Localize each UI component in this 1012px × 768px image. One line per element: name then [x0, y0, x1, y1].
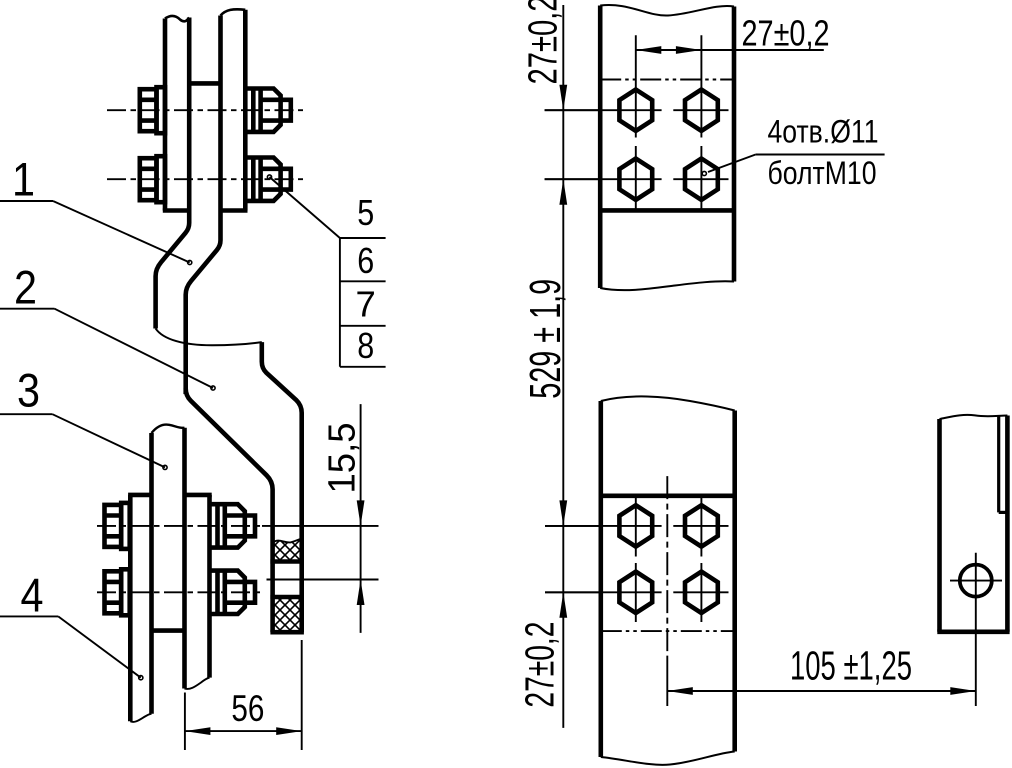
hex bolt head upper-right [685, 90, 718, 131]
dimension 105 ±1,25 [667, 643, 976, 695]
dimension text 529 ± 1,9 (rotated) [521, 279, 570, 399]
callout 1 leader [0, 152, 192, 264]
front view upper bar outline with break lines [600, 5, 734, 290]
overlap seam line on strip [999, 416, 1008, 512]
centerline of upper bottom-joint bolt [97, 525, 379, 527]
bar 1 (middle clamped bar, jogs left and descends to break) [156, 16, 221, 395]
centerline of lower bottom-joint bolt [97, 591, 262, 593]
bolt bottom joint upper (M10) with washers and nut [105, 503, 256, 549]
svg-text:1: 1 [12, 152, 35, 205]
dimension 15,5 (vertical, arrows outside) [322, 404, 365, 633]
callout 2 leader [0, 261, 215, 391]
svg-text:5: 5 [357, 192, 374, 233]
svg-text:3: 3 [17, 364, 40, 417]
break line of right layer bottom (wavy) [185, 678, 210, 689]
main vertical dimension line (27 / 529 / 27) [545, 5, 601, 728]
hex bolt head bottom-bar lower-left [619, 572, 652, 613]
hex bolt head bottom-bar upper-right [685, 505, 718, 546]
busbar item upper-right vertical bar (right layer of top joint) [221, 9, 248, 210]
dimension 56 (horizontal at bottom) [185, 640, 302, 750]
edge of overlapped bar (solid thick) on lower bar [601, 493, 735, 498]
row centerline B of lower bar [545, 591, 729, 593]
svg-text:27±0,2: 27±0,2 [517, 622, 563, 708]
dimension text 27±0,2 (upper left, rotated) [520, 0, 566, 85]
bar 2 (rear bar, jogs right, descends to contact end) [186, 342, 304, 632]
bar 4 (left layer of bottom joint, continues downward) [128, 495, 151, 721]
bolt bottom joint lower (M10) with washers and nut [105, 569, 256, 615]
front view lower bar outline with break lines [601, 396, 735, 764]
edge of overlapped bar (solid thick) on upper bar [600, 208, 734, 213]
svg-text:529 ± 1,9: 529 ± 1,9 [521, 279, 570, 399]
hex bolt head bottom-bar upper-left [619, 505, 652, 546]
break line of bar 3 top (wavy) [152, 425, 185, 433]
svg-text:6: 6 [357, 240, 374, 281]
svg-text:15,5: 15,5 [322, 423, 364, 494]
label 4отв.Ø11 / болтМ10 with leader [702, 114, 884, 191]
hex bolt head bottom-bar lower-right [685, 572, 718, 613]
contact pad 1 (cross-hatched) on bar 2 [270, 539, 304, 562]
fold/position line (dash-dot-dot) on lower bar [601, 630, 735, 632]
vertical axis (dash-dot) of lower bar [666, 476, 668, 706]
bar 3 (middle bar of bottom joint, broken above) [152, 428, 185, 714]
callout 3 leader [0, 364, 167, 470]
right layer bar of bottom joint (continues downward) [185, 495, 212, 678]
centerline of upper top-joint bolt [107, 109, 303, 111]
svg-text:56: 56 [231, 688, 264, 729]
svg-text:105 ±1,25: 105 ±1,25 [790, 643, 912, 689]
callout 4 leader [0, 568, 143, 680]
row centerline 2 of upper bar [545, 178, 729, 180]
dimension text 27±0,2 (lower left, rotated) [517, 622, 563, 708]
busbar item upper-left vertical bar (left layer of top joint) [163, 16, 189, 211]
item numbers 5 6 7 8 stack [340, 192, 386, 367]
break line of bar 1 (wavy) [156, 329, 262, 346]
hex bolt head lower-left [619, 159, 652, 200]
fold/position line (dash-dot-dot) on upper bar [600, 79, 734, 81]
hole Ø11 in strip [950, 553, 1002, 706]
svg-text:2: 2 [14, 261, 37, 314]
svg-text:27±0,2: 27±0,2 [520, 0, 566, 85]
svg-text:болтМ10: болтМ10 [768, 155, 877, 191]
svg-text:8: 8 [357, 325, 374, 366]
bolt top joint lower (M10) with washers and nut [140, 156, 291, 202]
short hole axes of lower bar [636, 498, 702, 623]
hex bolt head upper-left [619, 90, 652, 131]
row centerline 1 of upper bar [545, 109, 729, 111]
svg-text:7: 7 [356, 284, 376, 325]
bolt 5 top joint upper (M10) with washers and nut [140, 87, 291, 133]
svg-text:27±0,2: 27±0,2 [742, 13, 830, 54]
dimension 27±0,2 (top, between hole axes) [636, 13, 830, 54]
contact pad 2 (cross-hatched) on bar 2 [270, 597, 304, 632]
svg-text:4: 4 [21, 568, 44, 621]
column centerlines of upper bar [636, 35, 702, 210]
svg-text:4отв.Ø11: 4отв.Ø11 [768, 114, 879, 150]
break line of bar 4 bottom (wavy) [130, 714, 151, 722]
side view strip of lower bar (edge view) [937, 415, 1009, 632]
extension line through bar 2 gap (lower reference of 15,5) [267, 579, 379, 581]
leader from top-joint nut to item list [267, 175, 340, 238]
hex bolt head lower-right [685, 159, 718, 200]
row centerline A of lower bar [545, 525, 729, 527]
centerline of lower top-joint bolt [107, 178, 303, 180]
